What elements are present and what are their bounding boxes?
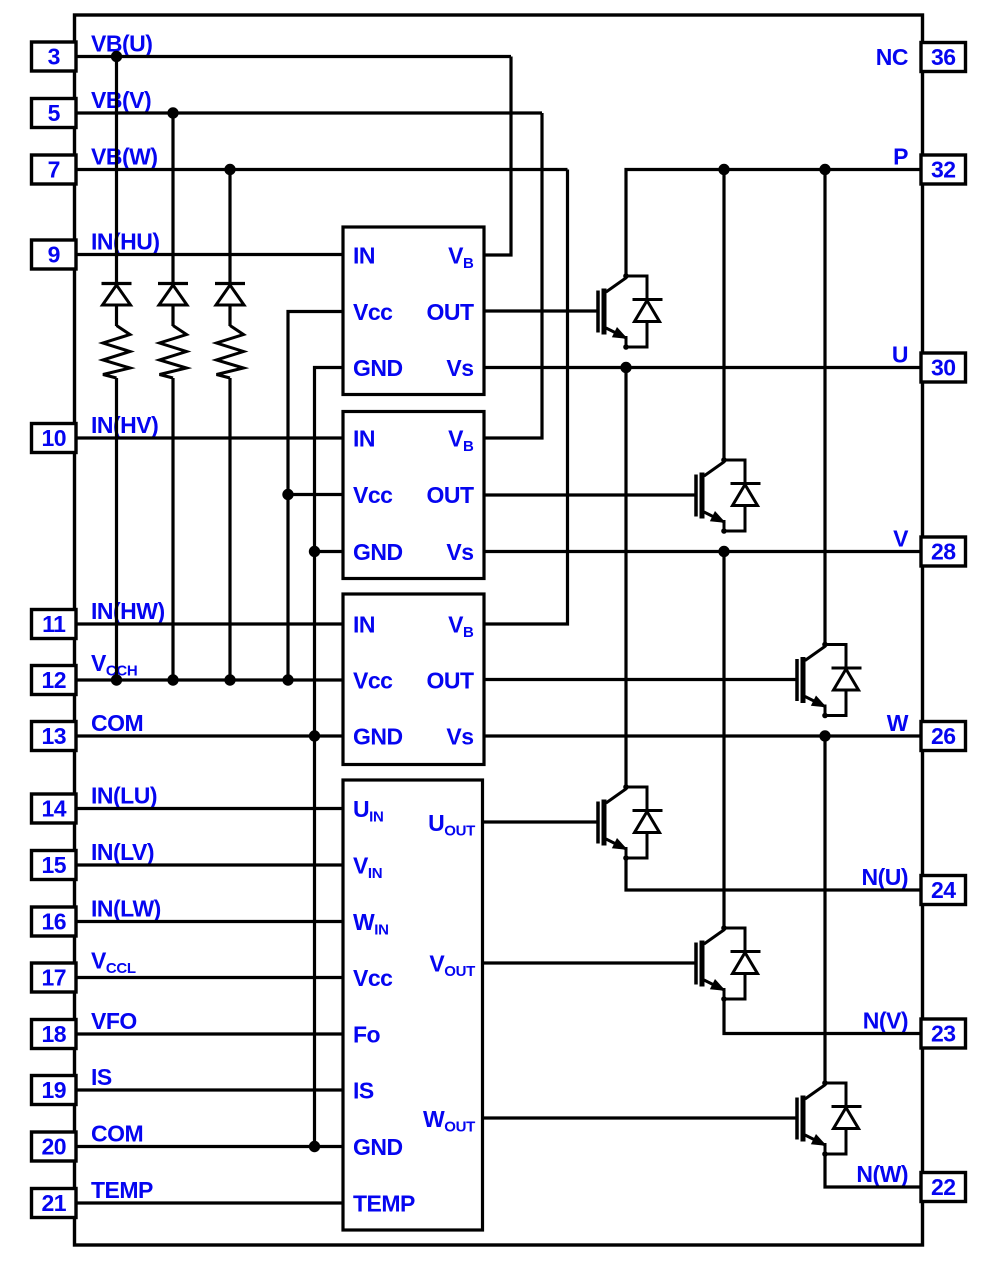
pin 3 number [48, 44, 60, 70]
op-amp U2 (high-side V driver) box [343, 412, 484, 579]
diode D9 (freewheel of Q6) [825, 1083, 862, 1154]
svg-text:VFO: VFO [91, 1008, 137, 1034]
junction node VB(U) [111, 51, 122, 62]
wire pin 12 VCCH row to U3 Vcc [76, 678, 343, 681]
pin 32 number [931, 157, 956, 183]
wire N(W) row (pin 22) [825, 1154, 923, 1187]
svg-text:30: 30 [931, 355, 956, 381]
svg-text:GND: GND [353, 539, 403, 565]
svg-text:VB(V): VB(V) [91, 87, 151, 113]
svg-text:36: 36 [931, 44, 956, 70]
pin 30 label U [892, 342, 908, 368]
pin 7 number [48, 157, 60, 183]
U1 pin label GND [353, 355, 403, 381]
U4 pin label IS [353, 1078, 374, 1104]
wire gate drive to Q6 [483, 1116, 796, 1119]
svg-text:VB(U): VB(U) [91, 31, 152, 57]
wire diode D2 to resistor R2 [171, 305, 174, 326]
svg-text:N(V): N(V) [863, 1008, 908, 1034]
U4 pin label UIN [353, 796, 384, 826]
wire gate drive to Q2 [484, 493, 695, 496]
pin 22 label N(W) [856, 1161, 908, 1187]
pin 11 number [42, 611, 66, 637]
svg-text:Vcc: Vcc [353, 482, 393, 508]
junction U row / phase leg [620, 362, 631, 373]
pin 24 box [921, 876, 966, 905]
pin 9 number [48, 242, 60, 268]
svg-text:12: 12 [41, 667, 66, 693]
pin 19 number [41, 1077, 66, 1103]
svg-text:IS: IS [91, 1064, 112, 1090]
transistor Q2 (IGBT) [696, 457, 727, 534]
diode D4 (freewheel of Q1) [626, 276, 663, 347]
svg-text:22: 22 [931, 1174, 956, 1200]
diode D7 (freewheel of Q4) [626, 787, 663, 858]
U2 pin label OUT [426, 482, 474, 508]
wire N(U) row (pin 24) [626, 858, 923, 890]
wire U2 Vcc stub [288, 493, 343, 496]
svg-text:IN(HU): IN(HU) [91, 229, 160, 255]
junction COM pin 20 / GND bus [309, 1141, 320, 1152]
U3 pin label Vs [446, 724, 473, 750]
svg-text:5: 5 [48, 100, 61, 126]
wire pin 21 TEMP to LVIC [76, 1201, 343, 1204]
U4 pin label TEMP [353, 1191, 415, 1217]
U4 pin label Fo [353, 1022, 381, 1048]
pin 17 box [32, 963, 77, 992]
svg-text:W: W [887, 710, 909, 736]
pin 18 label VFO [91, 1008, 137, 1034]
svg-text:28: 28 [931, 539, 956, 565]
transistor Q4 (IGBT) [598, 784, 629, 861]
svg-text:TEMP: TEMP [91, 1177, 153, 1203]
U2 pin label IN [353, 426, 375, 452]
pin 20 label COM [91, 1121, 143, 1147]
svg-text:13: 13 [41, 723, 66, 749]
pin 20 number [41, 1134, 66, 1160]
pin 14 number [41, 796, 66, 822]
U2 pin label GND [353, 539, 403, 565]
wire VCCH bus (feeds U1/U2 Vcc) [288, 312, 343, 681]
svg-text:IN: IN [353, 243, 375, 269]
wire U row to Q4 collector [624, 368, 627, 788]
svg-text:IN(LU): IN(LU) [91, 783, 157, 809]
pin 28 label V [893, 526, 909, 552]
pin 16 number [41, 909, 66, 935]
svg-text:OUT: OUT [426, 299, 474, 325]
pin 15 label IN(LV) [91, 839, 154, 865]
svg-text:10: 10 [41, 425, 66, 451]
wire pin 15 IN(LV) to LVIC [76, 863, 343, 866]
svg-text:GND: GND [353, 724, 403, 750]
wire pin 3 VB(U) row [76, 55, 511, 58]
pin 21 number [41, 1190, 66, 1216]
pin 11 label IN(HW) [91, 598, 165, 624]
wire bootstrap W upper segment [228, 170, 231, 285]
pin 12 label VCCH [91, 650, 137, 680]
U4 pin label VOUT [429, 951, 475, 981]
pin 16 label IN(LW) [91, 896, 161, 922]
pin 7 box [32, 155, 77, 184]
svg-text:11: 11 [42, 611, 66, 637]
pin 36 box [921, 43, 966, 72]
U4 pin label Vcc [353, 965, 393, 991]
wire pin 18 VFO to LVIC [76, 1032, 343, 1035]
svg-text:OUT: OUT [426, 668, 474, 694]
diode D3 (bootstrap W) [215, 284, 245, 306]
pin 28 number [931, 539, 956, 565]
pin 14 box [32, 794, 77, 823]
pin 23 box [921, 1019, 966, 1048]
svg-text:N(W): N(W) [856, 1161, 908, 1187]
svg-text:COM: COM [91, 1121, 143, 1147]
pin 3 box [32, 42, 77, 71]
diode D6 (freewheel of Q3) [825, 645, 862, 716]
junction GND bus / U2 GND [309, 546, 320, 557]
junction P rail / V phase [718, 164, 729, 175]
wire VB(V) to driver U2 VB (net VB2) [484, 113, 542, 438]
pin 18 number [41, 1021, 66, 1047]
U3 pin label Vcc [353, 668, 393, 694]
resistor R2 (bootstrap V) [160, 326, 187, 379]
svg-text:N(U): N(U) [861, 864, 908, 890]
pin 24 label N(U) [861, 864, 908, 890]
pin 26 box [921, 722, 966, 751]
wire bootstrap U upper segment [115, 57, 118, 285]
U4 pin label VIN [353, 853, 382, 883]
U4 pin label WIN [353, 909, 389, 939]
transistor Q1 (IGBT) [598, 273, 629, 350]
svg-text:IN: IN [353, 426, 375, 452]
wire P rail (pin 32) [626, 170, 923, 277]
pin 23 number [931, 1021, 956, 1047]
pin 5 box [32, 99, 77, 128]
diode D1 (bootstrap U) [102, 284, 132, 306]
pin 22 box [921, 1173, 966, 1202]
resistor R3 (bootstrap W) [217, 326, 244, 379]
svg-text:IN: IN [353, 612, 375, 638]
svg-text:23: 23 [931, 1021, 956, 1047]
pin 9 box [32, 240, 77, 269]
junction COM row / GND bus [309, 730, 320, 741]
svg-text:TEMP: TEMP [353, 1191, 415, 1217]
wire pin 9 IN(HU) to U1 IN [76, 253, 343, 256]
diode D5 (freewheel of Q2) [724, 460, 761, 531]
pin 22 number [931, 1174, 956, 1200]
wire resistor R2 to VCCH row [171, 378, 174, 680]
transistor Q3 (IGBT) [797, 642, 828, 719]
wire V row to Q5 collector [722, 552, 725, 929]
pin 16 box [32, 907, 77, 936]
pin 14 label IN(LU) [91, 783, 157, 809]
U3 pin label VB [448, 612, 474, 642]
svg-text:15: 15 [41, 852, 66, 878]
wire N(V) row (pin 23) [724, 999, 923, 1034]
op-amp U3 (high-side W driver) box [343, 594, 484, 765]
wire diode D3 to resistor R3 [228, 305, 231, 326]
wire COM GND bus (U1/U2/U3 GND, LVIC GND) [315, 368, 344, 1147]
svg-text:20: 20 [41, 1134, 66, 1160]
pin 30 number [931, 355, 956, 381]
pin 13 number [41, 723, 66, 749]
svg-text:Vcc: Vcc [353, 965, 393, 991]
wire pin 13 COM row to U3 GND [76, 734, 343, 737]
svg-text:Vs: Vs [446, 539, 473, 565]
wire resistor R1 to VCCH row [115, 378, 118, 680]
pin 36 number [931, 44, 956, 70]
svg-text:IN(LW): IN(LW) [91, 896, 161, 922]
resistor R1 (bootstrap U) [103, 326, 130, 379]
U1 pin label Vs [446, 355, 473, 381]
wire U2 GND stub [315, 550, 344, 553]
U2 pin label Vs [446, 539, 473, 565]
pin 3 label VB(U) [91, 31, 152, 57]
wire pin 7 VB(W) row [76, 168, 568, 171]
junction nodes on VCCH row [111, 674, 294, 685]
svg-text:IN(HW): IN(HW) [91, 598, 165, 624]
U4 pin label WOUT [423, 1106, 475, 1136]
pin 11 box [32, 610, 77, 639]
U3 pin label IN [353, 612, 375, 638]
junction V row / phase leg [718, 546, 729, 557]
svg-text:P: P [893, 144, 908, 170]
U3 pin label OUT [426, 668, 474, 694]
svg-text:IS: IS [353, 1078, 374, 1104]
pin 17 number [41, 965, 66, 991]
junction VCCH bus / U2 Vcc [282, 489, 293, 500]
svg-text:OUT: OUT [426, 482, 474, 508]
wire pin 11 IN(HW) to U3 IN [76, 622, 343, 625]
svg-text:Vs: Vs [446, 724, 473, 750]
svg-text:V: V [893, 526, 909, 552]
pin 10 box [32, 424, 77, 453]
pin 7 label VB(W) [91, 144, 157, 170]
diode D8 (freewheel of Q5) [724, 928, 761, 999]
svg-text:IN(HV): IN(HV) [91, 412, 158, 438]
wire gate drive to Q3 [484, 678, 796, 681]
wire pin 5 VB(V) row [76, 111, 542, 114]
U1 pin label Vcc [353, 299, 393, 325]
pin 17 label VCCL [91, 948, 136, 978]
wire pin 17 VCCL to LVIC [76, 976, 343, 979]
junction node VB(V) [167, 107, 178, 118]
U1 pin label OUT [426, 299, 474, 325]
wire gate drive to Q1 [484, 309, 597, 312]
U3 pin label GND [353, 724, 403, 750]
svg-text:VB(W): VB(W) [91, 144, 157, 170]
U1 pin label VB [448, 243, 474, 273]
wire diode D1 to resistor R1 [115, 305, 118, 326]
pin 26 label W [887, 710, 909, 736]
svg-text:32: 32 [931, 157, 956, 183]
svg-text:3: 3 [48, 44, 60, 70]
svg-text:COM: COM [91, 710, 143, 736]
pin 18 box [32, 1020, 77, 1049]
svg-text:7: 7 [48, 157, 60, 183]
wire VB(W) to driver U3 VB (net VB3) [484, 170, 568, 625]
pin 26 number [931, 723, 956, 749]
svg-text:16: 16 [41, 909, 66, 935]
pin 12 box [32, 666, 77, 695]
svg-text:NC: NC [876, 44, 908, 70]
svg-text:17: 17 [41, 965, 66, 991]
pin 12 number [41, 667, 66, 693]
pin 23 label N(V) [863, 1008, 908, 1034]
pin 30 box [921, 353, 966, 382]
wire P rail to Q2 collector [722, 170, 725, 461]
wire pin 19 IS to LVIC [76, 1088, 343, 1091]
wire VB(U) to driver U1 VB (net VB1) [484, 57, 511, 256]
pin 5 label VB(V) [91, 87, 151, 113]
junction P rail / W phase [819, 164, 830, 175]
wire pin 16 IN(LW) to LVIC [76, 920, 343, 923]
svg-text:14: 14 [41, 796, 66, 822]
svg-text:24: 24 [931, 877, 956, 903]
svg-text:Fo: Fo [353, 1022, 381, 1048]
U2 pin label Vcc [353, 482, 393, 508]
U4 pin label GND [353, 1134, 403, 1160]
pin 32 box [921, 155, 966, 184]
svg-text:26: 26 [931, 723, 956, 749]
svg-text:21: 21 [41, 1190, 66, 1216]
svg-text:18: 18 [41, 1021, 66, 1047]
junction W row / phase leg [819, 730, 830, 741]
wire resistor R3 to VCCH row [228, 378, 231, 680]
pin 28 box [921, 537, 966, 566]
svg-text:GND: GND [353, 1134, 403, 1160]
wire W output row (pin 26) [484, 734, 923, 737]
svg-text:Vcc: Vcc [353, 668, 393, 694]
pin 15 number [41, 852, 66, 878]
U2 pin label VB [448, 426, 474, 456]
op-amp U4 (low-side LVIC) box [343, 780, 483, 1230]
svg-text:19: 19 [41, 1077, 66, 1103]
wire pin 14 IN(LU) to LVIC [76, 807, 343, 810]
transistor Q5 (IGBT) [696, 925, 727, 1002]
pin 9 label IN(HU) [91, 229, 160, 255]
svg-text:Vs: Vs [446, 355, 473, 381]
U1 pin label IN [353, 243, 375, 269]
pin 36 label NC [876, 44, 908, 70]
junction node VB(W) [224, 164, 235, 175]
svg-text:9: 9 [48, 242, 60, 268]
pin 15 box [32, 851, 77, 880]
pin 5 number [48, 100, 61, 126]
pin 20 box [32, 1132, 77, 1161]
pin 19 label IS [91, 1064, 112, 1090]
wire W row to Q6 collector [823, 736, 826, 1083]
pin 13 box [32, 722, 77, 751]
pin 24 number [931, 877, 956, 903]
pin 21 label TEMP [91, 1177, 153, 1203]
pin 19 box [32, 1076, 77, 1105]
U4 pin label UOUT [428, 810, 475, 840]
pin 21 box [32, 1189, 77, 1218]
wire pin 20 COM to LVIC [76, 1145, 343, 1148]
pin 13 label COM [91, 710, 143, 736]
wire pin 10 IN(HV) to U2 IN [76, 436, 343, 439]
svg-text:IN(LV): IN(LV) [91, 839, 154, 865]
wire gate drive to Q4 [483, 820, 597, 823]
wire V output row (pin 28) [484, 550, 923, 553]
svg-text:GND: GND [353, 355, 403, 381]
pin 32 label P [893, 144, 908, 170]
pin 10 number [41, 425, 66, 451]
wire gate drive to Q5 [483, 961, 695, 964]
pin 10 label IN(HV) [91, 412, 158, 438]
wire P rail to Q3 collector [823, 170, 826, 645]
wire bootstrap V upper segment [171, 113, 174, 284]
wire U output row (pin 30) [484, 366, 923, 369]
op-amp U1 (high-side U driver) box [343, 227, 484, 395]
diode D2 (bootstrap V) [158, 284, 188, 306]
transistor Q6 (IGBT) [797, 1080, 828, 1157]
svg-text:U: U [892, 342, 908, 368]
svg-text:Vcc: Vcc [353, 299, 393, 325]
